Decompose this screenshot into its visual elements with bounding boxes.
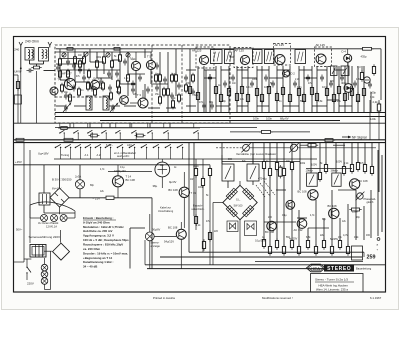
capacitor front-end fill C23 xyxy=(99,79,103,86)
wire decoder column 13 xyxy=(335,143,337,173)
38kHz transformer right xyxy=(247,164,259,181)
svg-text:68p: 68p xyxy=(222,101,227,103)
switch key S0 xyxy=(55,144,62,148)
resistor IF bias R215 xyxy=(302,92,305,103)
svg-text:A 1: A 1 xyxy=(85,153,89,157)
wire IF column 5 xyxy=(228,66,230,113)
svg-text:0,1µ: 0,1µ xyxy=(282,215,287,217)
wire front-end stub 27 xyxy=(175,82,177,96)
svg-text:38kHz: 38kHz xyxy=(331,169,339,173)
transistor decoder AC151 xyxy=(297,219,307,229)
resistor front-end R16 xyxy=(127,73,130,84)
capacitor front-end fill C213 xyxy=(177,83,181,90)
wire mid col 2b xyxy=(202,186,204,253)
wire NF link xyxy=(300,139,325,141)
wire key band rail xyxy=(58,127,200,129)
wire front-end link 9 xyxy=(56,105,66,107)
dial lamp c xyxy=(41,278,48,285)
wire bus IF ground xyxy=(55,112,385,114)
svg-text:1n: 1n xyxy=(81,90,84,92)
wire front-end vert 5 xyxy=(135,52,137,61)
svg-text:54µ/12V: 54µ/12V xyxy=(164,240,174,244)
wire decoder rail 2 xyxy=(306,168,352,170)
wire decoder top feed xyxy=(221,155,223,164)
wire bridge out2 xyxy=(115,197,153,199)
wire IF link 6 xyxy=(317,69,327,71)
resistor decoder R63 xyxy=(282,166,285,177)
svg-text:10n: 10n xyxy=(246,85,251,89)
resistor front-end fill R310 xyxy=(171,73,174,84)
wire decoder column 7 xyxy=(283,143,285,168)
svg-text:2,2k: 2,2k xyxy=(373,100,379,104)
resistor IF bias R28 xyxy=(255,86,258,97)
wire front-end stub 9 xyxy=(127,52,129,74)
ratio detector coil a xyxy=(331,66,338,76)
wire decoder column 1 xyxy=(227,181,229,188)
wire front-end stub 4 xyxy=(89,49,91,62)
capacitor ratio 100u xyxy=(368,82,372,89)
wire decoder column 21 xyxy=(269,176,271,246)
svg-text:4µ/25V: 4µ/25V xyxy=(289,237,298,241)
wire lamp string bottom xyxy=(44,284,46,289)
potentiometer radiator xyxy=(289,143,299,153)
wire mid col 1 xyxy=(195,159,197,169)
wire lamp down xyxy=(79,189,81,198)
shield IF stage 1 (dashed) xyxy=(196,47,214,68)
wire IF column 20 xyxy=(333,66,335,113)
wire front-end vert 3 xyxy=(103,52,105,57)
resistor IF bias R222 xyxy=(350,86,353,97)
wire NF column a xyxy=(188,143,190,252)
switch key S2 xyxy=(75,144,82,148)
wire cap38 up xyxy=(161,159,163,162)
scale lamp 3 xyxy=(60,215,67,222)
svg-text:220: 220 xyxy=(214,231,219,233)
switch key S1 xyxy=(65,144,72,148)
switch contact band S25 xyxy=(131,123,137,140)
resistor key band a xyxy=(89,134,100,137)
antenna dipole arrow right xyxy=(48,42,52,46)
wire antenna right lead xyxy=(49,46,51,48)
wire switch stub 3 xyxy=(90,148,92,160)
wire bridge down xyxy=(59,207,61,213)
capacitor IF fill C32 xyxy=(231,75,235,82)
rectifier bridge series version xyxy=(53,243,70,260)
rectifier bridge B30C350 xyxy=(50,188,69,207)
svg-text:4,7k: 4,7k xyxy=(124,78,129,80)
svg-text:10n: 10n xyxy=(297,85,302,89)
svg-text:2,2k: 2,2k xyxy=(131,59,136,61)
resistor decoder R61 xyxy=(268,166,271,177)
wire IF link 5 xyxy=(299,69,312,71)
resistor front-end fill R38 xyxy=(155,73,158,84)
wire front-end stub 8 xyxy=(119,49,121,54)
svg-text:68p: 68p xyxy=(90,185,95,187)
wire main bus upper xyxy=(14,139,385,141)
wire bridge row down xyxy=(44,212,75,214)
wire T15 down xyxy=(180,239,182,268)
wire IF column 0 xyxy=(189,66,191,113)
switch contact band S21 xyxy=(73,123,79,140)
ratio detector coil b hatch xyxy=(343,68,347,75)
svg-text:gleich: gleich xyxy=(367,200,374,204)
wire lamp feed left2 xyxy=(130,227,145,229)
capacitor front-end fill C217 xyxy=(72,85,76,92)
diode AGC D2 xyxy=(283,70,290,77)
capacitor IF fill C36 xyxy=(293,81,297,88)
wire right vertical c xyxy=(369,100,371,140)
wire IF column 23 xyxy=(351,66,353,113)
19kHz transformer left hatch xyxy=(225,166,231,179)
switch key S11 xyxy=(177,144,184,148)
wire switch stub 7 xyxy=(134,148,136,160)
wire to matching resistor xyxy=(36,64,38,66)
wire left column xyxy=(17,75,19,123)
wire T15 up xyxy=(180,222,182,229)
wire decoder column 10 xyxy=(310,143,312,173)
resistor key band b xyxy=(135,134,146,137)
wire T3 base xyxy=(130,102,138,104)
svg-text:2,2k: 2,2k xyxy=(295,79,300,81)
transistor IF T7 AF125 xyxy=(316,54,326,64)
trimmer capacitor T1 xyxy=(84,52,88,56)
wire mains entry xyxy=(14,261,24,263)
resistor IF bias R26 xyxy=(240,84,243,95)
wire front-end link 0 xyxy=(60,58,84,60)
coil front-end L4 xyxy=(103,96,109,110)
capacitor IF fill C311 xyxy=(353,81,357,88)
switch contact band S23 xyxy=(101,123,107,140)
svg-text:2,2k: 2,2k xyxy=(196,225,201,227)
capacitor IF fill C34 xyxy=(264,75,268,82)
svg-text:240: 240 xyxy=(14,48,19,52)
ratio detector coil a hatch xyxy=(332,68,336,75)
wire decoder column 23 xyxy=(283,176,285,246)
coil L4 winding xyxy=(106,98,107,109)
wire below L2 xyxy=(43,61,45,64)
resistor IF bias R220 xyxy=(337,84,340,95)
wire front col extra xyxy=(205,70,207,113)
resistor decoder R64 xyxy=(290,160,293,171)
wire IF column 4 xyxy=(220,66,222,113)
wire left link xyxy=(14,74,18,76)
wire front-end stub 7 xyxy=(111,52,113,60)
svg-text:1000µ/6V: 1000µ/6V xyxy=(114,169,126,173)
wire decoder column 32 xyxy=(355,190,357,240)
wire detector col xyxy=(361,66,363,73)
wire decoder column 3 xyxy=(252,181,254,185)
resistor NF 2 xyxy=(306,144,318,147)
transistor T5 xyxy=(146,60,155,69)
resistor front top a xyxy=(65,48,75,51)
wire under stub 0 xyxy=(69,123,71,127)
transistor T14 BC108 xyxy=(112,176,123,187)
wire IF column 19 xyxy=(326,66,328,113)
wire bus IF supply xyxy=(55,116,385,118)
capacitor IF fill C30 xyxy=(208,75,212,82)
resistor decoder R617 xyxy=(297,244,300,255)
svg-text:3x Osram Plastik: 3x Osram Plastik xyxy=(38,221,59,225)
resistor front-end R114 xyxy=(117,79,120,90)
wire front-end rail b xyxy=(60,69,120,71)
potentiometer phase xyxy=(356,192,365,201)
switch key S6 xyxy=(117,144,124,148)
wire front-end stub 15 xyxy=(59,65,61,80)
resistor front-end fill R30 xyxy=(61,83,64,94)
svg-text:9-10µV an 240 Ohm: 9-10µV an 240 Ohm xyxy=(83,220,110,224)
resistor decoder R619 xyxy=(314,244,317,255)
coil L1 winding xyxy=(28,50,30,59)
38kHz coil right b xyxy=(332,173,341,186)
shield IF stage 3 (dashed) xyxy=(274,44,291,66)
resistor IF bias R210 xyxy=(267,84,270,95)
resistor front-end R110 xyxy=(159,95,162,106)
wire bus midlink xyxy=(180,127,257,129)
wire front-end vert 6 xyxy=(150,52,152,60)
switch key S7 xyxy=(129,144,136,148)
wire front-end vert 4 xyxy=(119,52,121,55)
resistor IF bias R217 xyxy=(315,91,318,102)
wire left power col xyxy=(29,150,31,243)
wire switch stub 2 xyxy=(80,148,82,160)
resistor front-end fill R37 xyxy=(118,85,121,96)
wire bus left segment xyxy=(23,143,25,262)
wire stereo lamp down xyxy=(149,241,151,269)
resistor IF bias R23 xyxy=(219,92,222,103)
capacitor IF fill C31 xyxy=(223,81,227,88)
wire switch stub 6 xyxy=(122,148,124,160)
wire switch stub 8 xyxy=(146,148,148,160)
resistor front-end R19 xyxy=(175,73,178,84)
wire rail under switches xyxy=(54,158,317,160)
svg-text:D 2: D 2 xyxy=(291,72,296,76)
wire bus AGC xyxy=(100,120,340,122)
wire decoder column 33 xyxy=(363,206,365,240)
wire front-end stub 10 xyxy=(144,49,146,58)
transistor RF amp AF107 xyxy=(64,78,75,89)
wire decoder column 16 xyxy=(357,143,359,162)
wire front-end link 7 xyxy=(120,83,136,85)
svg-text:Ug=18V: Ug=18V xyxy=(38,151,49,155)
wire D4 to D6 xyxy=(347,62,349,83)
wire decoder column 27 xyxy=(315,200,317,246)
capacitor tuning 1 xyxy=(64,105,68,112)
svg-text:S.L.: S.L. xyxy=(236,199,241,202)
svg-text:4,7k: 4,7k xyxy=(310,215,315,217)
wire decoder column 15 xyxy=(351,143,353,164)
resistor IF bias R211 xyxy=(275,91,278,102)
wire NF link2 xyxy=(300,144,308,146)
svg-text:19kHz: 19kHz xyxy=(306,169,314,173)
transistor decoder BC108 d xyxy=(349,179,359,189)
wire IF column 7 xyxy=(241,66,243,113)
svg-text:ausf.+AFC: ausf.+AFC xyxy=(117,154,129,158)
resistor decoder R610 xyxy=(363,162,366,173)
wire IF column 17 xyxy=(311,66,313,113)
connector left bus b xyxy=(64,138,73,141)
wire switch stub 0 xyxy=(60,148,62,160)
coil L3 winding xyxy=(89,98,90,109)
wire IF extra col a xyxy=(363,66,365,113)
svg-text:259: 259 xyxy=(367,254,376,260)
wire front-end link 17 xyxy=(186,105,196,107)
wire decoder column 9 xyxy=(299,143,301,190)
resistor front-end R12 xyxy=(83,55,86,66)
resistor IF bias R27 xyxy=(246,92,249,103)
arrow NF signal xyxy=(342,136,349,138)
capacitor front entry b xyxy=(72,63,76,70)
svg-text:15k: 15k xyxy=(155,94,160,96)
19kHz transformer left xyxy=(222,164,234,181)
wire decoder top feed2 xyxy=(252,155,254,164)
wire front-end link 1 xyxy=(90,61,104,63)
wire front-end stub 20 xyxy=(111,67,113,80)
svg-text:D 4: D 4 xyxy=(342,50,347,54)
wire decoder column 30 xyxy=(339,218,341,240)
wire front entry row xyxy=(56,63,85,65)
resistor front-end R14 xyxy=(111,59,114,70)
wire mains L xyxy=(26,259,28,266)
svg-text:90µ/6V: 90µ/6V xyxy=(152,228,161,232)
wire decoder column 0 xyxy=(221,143,223,164)
wire IF link 14 xyxy=(204,77,216,79)
wire front-end link 4 xyxy=(60,79,70,81)
capacitor electrolytic 100u detector xyxy=(364,77,370,83)
resistor decoder R615 xyxy=(282,244,285,255)
resistor decoder R66 xyxy=(324,162,327,173)
wire IF column 3 xyxy=(215,66,217,113)
wire decoder diamond top xyxy=(239,181,241,185)
trimmer capacitor arrow 2 xyxy=(110,104,117,112)
resistor decoder R62 xyxy=(275,160,278,171)
19kHz coil right a hatch xyxy=(309,175,314,185)
wire IF column 14 xyxy=(289,66,291,113)
svg-text:50V~: 50V~ xyxy=(16,227,23,231)
resistor front-end R15 xyxy=(119,53,122,64)
wire front-end link 6 xyxy=(97,77,112,79)
svg-text:Bauanleitung: Bauanleitung xyxy=(356,267,372,271)
wire IF link 2 xyxy=(237,69,248,71)
svg-text:AF 107: AF 107 xyxy=(62,72,72,76)
svg-text:47p: 47p xyxy=(199,101,204,104)
wire under stub 3 xyxy=(129,123,131,127)
resistor IF bias R221 xyxy=(343,91,346,102)
wire IF link 10 xyxy=(257,105,269,107)
wire mid col 3 xyxy=(209,165,211,169)
wire main bus lower xyxy=(14,142,385,144)
wire bottom left drop xyxy=(144,240,146,265)
wire diamond left drop xyxy=(212,203,214,265)
svg-text:Modulation : 1kHz ∆f 1,75 kHz: Modulation : 1kHz ∆f 1,75 kHz xyxy=(83,225,124,229)
svg-text:Modifications reserved !: Modifications reserved ! xyxy=(262,296,293,300)
diode ratio detector D4 xyxy=(344,54,352,62)
transistor decoder BC108 a xyxy=(267,221,277,231)
resistor front-end R13 xyxy=(103,55,106,66)
wire antenna to front end xyxy=(44,70,56,72)
wire bottom bus 3 xyxy=(145,264,385,266)
wire front-end link 12 xyxy=(109,105,120,107)
wire lamp string r xyxy=(50,251,52,289)
IF transformer F2 xyxy=(225,50,235,64)
resistor -21V dropper xyxy=(104,196,116,199)
switch key S3 xyxy=(85,144,92,148)
svg-text:47k: 47k xyxy=(76,76,81,78)
resistor decoder R611 xyxy=(370,164,373,175)
transistor IF T2 AF125 xyxy=(240,55,249,64)
svg-text:Vgg Ausgang ca. 3,2 V: Vgg Ausgang ca. 3,2 V xyxy=(83,234,114,238)
stereo decoder diamond bridge xyxy=(223,185,257,219)
resistor detector R20 xyxy=(360,70,363,81)
capacitor front-end C11 xyxy=(107,71,111,78)
wire front-end link 16 xyxy=(186,69,196,71)
wire front-end stub 14 xyxy=(189,49,191,66)
capacitor IF fill C37 xyxy=(306,75,310,82)
resistor front-end fill R315 xyxy=(67,69,70,80)
resistor front-end R111 xyxy=(172,99,175,110)
wire D6 bottom xyxy=(347,92,349,100)
wire decoder column 14 xyxy=(343,143,345,166)
resistor decoder R613 xyxy=(268,244,271,255)
wire IF link 7 xyxy=(334,69,345,71)
wire IF column 1 xyxy=(197,66,199,113)
wire +15V rail xyxy=(14,164,210,166)
input filter coil box L2 xyxy=(39,48,49,62)
wire front-end rail a xyxy=(55,51,152,53)
switch key S10 xyxy=(165,144,172,148)
resistor detector load xyxy=(360,47,373,50)
wire IF link 8 xyxy=(216,105,229,107)
svg-text:T 13: T 13 xyxy=(191,191,197,195)
wire decoder column 18 xyxy=(371,143,373,166)
svg-text:+15V: +15V xyxy=(15,160,22,164)
svg-text:2,2k: 2,2k xyxy=(344,163,349,165)
svg-text:0,1µ: 0,1µ xyxy=(120,167,125,169)
capacitor electrolytic 38u xyxy=(155,162,170,177)
wire decoder column 12 xyxy=(325,143,327,164)
switch contact band S26 xyxy=(147,123,153,140)
transformer mains T symbol xyxy=(39,193,50,205)
IF transformer F1 xyxy=(211,50,223,64)
wire decoder column 8 xyxy=(291,143,293,162)
shield IF stage 4 (dashed) xyxy=(315,47,332,67)
shield partition horizontal (dashed) xyxy=(55,96,110,98)
logo STEREO box xyxy=(324,264,354,272)
svg-text:Decoder : 19 kHz vₓ = 10mV max: Decoder : 19 kHz vₓ = 10mV max. xyxy=(83,251,128,255)
wire front-end stub 1 xyxy=(67,52,69,58)
wire T13 up xyxy=(183,172,185,187)
wire IF column 24 xyxy=(357,66,359,113)
wire front-end stub 2 xyxy=(74,49,76,52)
resistor IF bias R21 xyxy=(196,90,199,101)
svg-text:HEA: HEA xyxy=(311,266,320,271)
trimmer capacitor T2 xyxy=(106,53,110,57)
svg-text:68p: 68p xyxy=(322,219,327,221)
wire decoder column 22 xyxy=(276,170,278,240)
wire front-end link 15 xyxy=(166,107,176,109)
resistor front-end fill R34 xyxy=(94,87,97,98)
wire detector top right xyxy=(372,48,382,50)
diode pair left xyxy=(227,221,238,232)
wire IF column 2 xyxy=(203,66,205,113)
capacitor front-end fill C210 xyxy=(155,63,159,70)
resistor key band c xyxy=(59,127,70,130)
svg-text:T 3: T 3 xyxy=(137,93,141,97)
svg-text:12k: 12k xyxy=(240,99,245,101)
capacitor front-end fill C20 xyxy=(66,59,70,66)
svg-text:STEREO: STEREO xyxy=(327,266,351,272)
wire antenna down feed xyxy=(36,71,38,123)
wire IF column 16 xyxy=(303,66,305,113)
